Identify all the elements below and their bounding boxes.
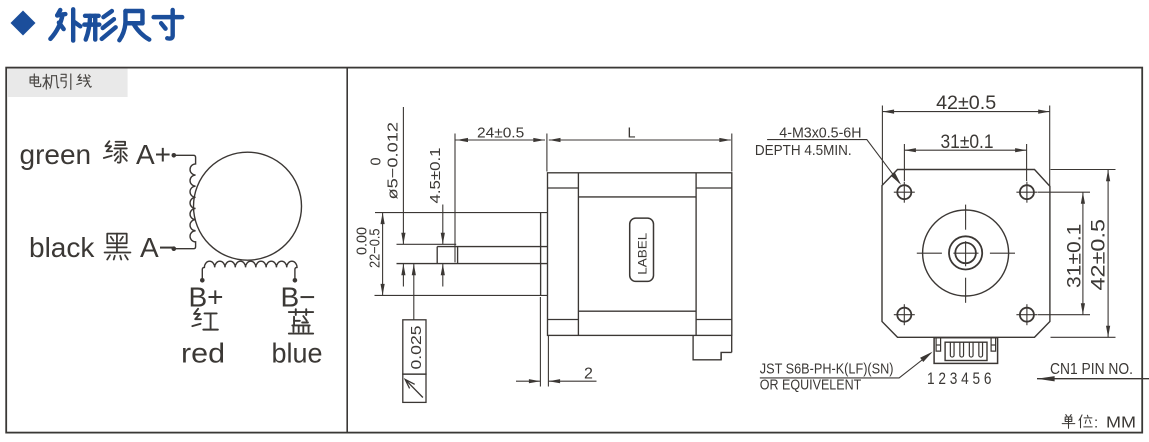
panel divider line: [346, 68, 348, 433]
glyph 黑: [105, 234, 131, 260]
connector front view: [934, 338, 998, 364]
ext bottom edge right: [1051, 336, 1116, 338]
ext line boss top: [375, 212, 547, 214]
runout leader line: [413, 264, 415, 320]
ext 31 top right: [1026, 144, 1028, 181]
terminal dot B-: [293, 278, 298, 283]
svg-text:B−: B−: [281, 282, 316, 313]
leader M3 holes: [767, 140, 899, 183]
ext 42 top right: [1049, 106, 1051, 186]
mounting hole top-right: [1016, 182, 1037, 203]
cap lip line top-left: [548, 187, 579, 189]
lead label black A-: [29, 232, 175, 263]
svg-text:0: 0: [369, 157, 385, 165]
bearing ring outer: [949, 236, 982, 269]
winding A coil (vertical) with leads: [174, 155, 196, 248]
dimension line 24±0.5: [456, 139, 546, 141]
ext 42 top left: [881, 106, 883, 185]
svg-text:LABEL: LABEL: [636, 232, 650, 274]
dimension/extension lines right view: [760, 106, 1149, 379]
CN1 arrow line: [1037, 378, 1149, 380]
ext line motor face top: [546, 134, 548, 172]
terminal dot A+: [172, 153, 177, 158]
ext hole center right bottom: [1038, 314, 1090, 316]
dim line 4.5 lower: [442, 264, 444, 287]
svg-text:A−: A−: [140, 232, 175, 263]
dim line 22-0.5: [382, 213, 384, 296]
dim line ø5 upper: [402, 107, 404, 244]
cap lip line bottom-right: [696, 319, 732, 321]
arrowheads front view: [883, 110, 1111, 382]
dim line ø5 lower: [402, 264, 404, 287]
dim line 42 top: [883, 111, 1050, 113]
svg-text:A+: A+: [136, 139, 171, 170]
svg-text:green: green: [20, 139, 92, 170]
ext line motor face bottom: [547, 336, 549, 387]
label text 电机引线: [30, 74, 91, 89]
svg-text:4-M3x0.5-6H: 4-M3x0.5-6H: [779, 126, 861, 142]
dim line 4.5 upper: [442, 205, 444, 245]
dimension texts side view: [355, 122, 636, 383]
dim line 2 right tail: [549, 380, 597, 382]
LABEL plate: [630, 218, 654, 281]
svg-text:CN1 PIN NO.: CN1 PIN NO.: [1050, 361, 1133, 378]
tolerance frame 0.025: [403, 320, 426, 374]
ext line boss face bottom: [539, 297, 541, 387]
ext line boss bottom: [375, 294, 548, 296]
pilot boss circle: [923, 210, 1009, 296]
mounting hole bottom-right: [1016, 304, 1037, 325]
lead label B- 蓝 blue: [272, 282, 323, 369]
center lines: [917, 205, 1015, 303]
shaft circle: [955, 243, 976, 264]
svg-text:24±0.5: 24±0.5: [477, 125, 524, 141]
annotation texts front view: [755, 92, 1133, 394]
svg-text:1 2 3 4 5 6: 1 2 3 4 5 6: [927, 369, 992, 388]
unit note 单位：MM: [1062, 415, 1092, 429]
cap lip line bottom-left: [548, 319, 579, 321]
rear end-cap seam: [695, 173, 697, 336]
dim line 31 right: [1082, 192, 1084, 315]
svg-text:DEPTH 4.5MIN.: DEPTH 4.5MIN.: [755, 143, 852, 159]
motor rotor circle: [194, 152, 302, 260]
leader JST: [760, 353, 931, 378]
svg-text:0.025: 0.025: [409, 326, 425, 370]
mounting hole top-left: [894, 182, 915, 203]
dim line 2 left tail: [516, 380, 540, 382]
svg-text:MM: MM: [1106, 415, 1136, 432]
lead label B+ 红 red: [181, 282, 225, 369]
svg-text::: :: [1094, 415, 1098, 432]
ext line shaft dia top: [397, 243, 457, 245]
cap lip line top-right: [696, 187, 732, 189]
rear connector block: [693, 336, 732, 360]
lead label green A+: [20, 139, 172, 170]
svg-text:JST S6B-PH-K(LF)(SN): JST S6B-PH-K(LF)(SN): [760, 361, 894, 378]
svg-text:ø5−0.012: ø5−0.012: [386, 122, 402, 200]
ext top edge right: [1051, 169, 1116, 171]
mounting hole bottom-left: [894, 304, 915, 325]
motor body outline: [548, 173, 732, 336]
svg-text:31±0.1: 31±0.1: [1064, 224, 1086, 288]
glyph 绿: [104, 141, 127, 162]
motor flange square with chamfers: [882, 170, 1050, 338]
dim line 42 right: [1107, 170, 1109, 338]
connector pins: [950, 342, 982, 357]
tolerance frame flag box: [403, 374, 426, 402]
dimension line L: [549, 139, 731, 141]
arrowheads side view: [381, 138, 731, 383]
dim line 31 top: [904, 149, 1026, 151]
front end-cap seam: [577, 173, 579, 336]
terminal dot A-: [172, 246, 177, 251]
ext hole center right top: [1038, 191, 1090, 193]
svg-text:4.5±0.1: 4.5±0.1: [428, 148, 444, 204]
pilot boss front face: [540, 212, 542, 295]
svg-text:2: 2: [584, 366, 593, 383]
svg-text:0.00: 0.00: [355, 227, 371, 255]
title text 外形尺寸: [50, 9, 182, 40]
terminal dot B+: [200, 278, 205, 283]
shaft bottom line with extension: [397, 263, 548, 265]
svg-text:L: L: [628, 125, 636, 141]
stator bottom line: [578, 310, 696, 312]
svg-text:OR EQUIVELENT: OR EQUIVELENT: [760, 377, 862, 394]
svg-text:B+: B+: [189, 282, 224, 313]
ext 31 top left: [903, 144, 905, 181]
shaft tip: [436, 247, 438, 264]
svg-text:42±0.5: 42±0.5: [936, 92, 996, 114]
gray label box: [7, 69, 128, 98]
svg-text:black: black: [29, 232, 95, 263]
ext line shaft step / 24 left: [454, 134, 456, 263]
svg-text:31±0.1: 31±0.1: [941, 131, 994, 153]
shaft top line: [437, 246, 547, 248]
winding B coil (horizontal) with leads: [202, 261, 297, 280]
svg-text:blue: blue: [272, 338, 323, 369]
shaft step line: [457, 247, 459, 264]
svg-text:42±0.5: 42±0.5: [1088, 219, 1110, 291]
runout symbol arrow: [405, 380, 423, 398]
svg-text:red: red: [181, 338, 225, 369]
title diamond bullet: [11, 11, 36, 36]
stator top line: [578, 196, 696, 198]
ext line motor rear top: [731, 134, 733, 172]
